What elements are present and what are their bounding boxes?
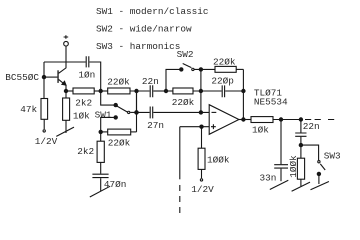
capacitor 33n plates	[274, 165, 288, 168]
wire 220k second to right vertical	[131, 131, 137, 133]
wire output vertical	[242, 69, 244, 119]
wire SW2 pole to node E	[195, 68, 216, 70]
svg-text:1Øk: 1Øk	[252, 124, 269, 135]
node I	[299, 117, 303, 121]
svg-text:BC55ØC: BC55ØC	[5, 72, 39, 83]
wire supply to collector node	[65, 46, 67, 62]
wire node C to 220k second	[101, 131, 108, 133]
wire 22n right to node J	[300, 137, 302, 158]
switch SW3 contact dot	[317, 172, 321, 176]
node B	[134, 89, 138, 93]
resistor 220k second	[108, 129, 131, 135]
wire node H to 33n	[280, 120, 282, 165]
svg-text:SW2 - wide/narrow: SW2 - wide/narrow	[96, 24, 192, 35]
wire 22n to node D	[153, 90, 166, 92]
svg-text:22Øk: 22Øk	[107, 76, 130, 87]
wire 220p to output vertical	[225, 90, 243, 92]
svg-text:2k2: 2k2	[77, 146, 94, 157]
node F	[199, 89, 203, 93]
switch SW2 pole circle	[192, 68, 194, 70]
op-amp minus sign	[212, 111, 217, 113]
switch SW1 upper wire	[101, 91, 116, 105]
svg-text:22Øk: 22Øk	[108, 138, 131, 149]
node C second 220k left	[99, 130, 103, 134]
wire emitter to 10k	[65, 91, 67, 98]
resistor 2k2 vertical	[97, 141, 104, 162]
wire plus input rail	[180, 126, 209, 128]
svg-text:SW3: SW3	[324, 150, 341, 161]
node H	[279, 117, 283, 121]
wire 1/2V dashed branch	[179, 185, 181, 213]
switch SW1 pole circle	[128, 111, 130, 113]
switch SW1 throw contact lower	[114, 115, 118, 119]
transistor Q1 emitter	[59, 79, 66, 91]
terminal 1/2V right	[200, 179, 202, 181]
node J	[299, 143, 303, 147]
wire 100k to terminal	[201, 169, 203, 178]
svg-text:22Øp: 22Øp	[211, 76, 234, 87]
svg-text:22n: 22n	[303, 121, 320, 132]
svg-text:1/2V: 1/2V	[35, 136, 58, 147]
wire base	[44, 76, 57, 78]
wire 33n to ground	[280, 169, 282, 182]
wire SW2 left branch	[166, 69, 181, 91]
wire SW1 lower branch	[101, 117, 116, 131]
wire SW3 to ground	[318, 174, 320, 184]
wire 220k feedback to output vertical	[236, 68, 243, 70]
svg-text:SW1 - modern/classic: SW1 - modern/classic	[96, 6, 209, 17]
node output	[241, 117, 245, 121]
resistor 100k bias	[198, 148, 205, 169]
capacitor 220p plates	[222, 85, 224, 97]
ground slash under 100k right	[292, 182, 310, 191]
supply terminal plus symbol	[64, 35, 69, 39]
node SW1 output	[134, 110, 138, 114]
svg-text:SW1: SW1	[95, 110, 112, 121]
wire node D to 220k under SW2	[166, 90, 173, 92]
wire 10k to node H	[273, 119, 301, 121]
wire 47k to terminal	[43, 119, 45, 129]
svg-text:22n: 22n	[142, 76, 159, 87]
switch SW2 contact dot	[179, 67, 183, 71]
switch SW2 lever	[183, 64, 192, 68]
svg-text:SW2: SW2	[177, 49, 194, 60]
wire dashed output continuation	[305, 119, 334, 121]
svg-text:33n: 33n	[260, 172, 277, 183]
wire right vertical node B down	[136, 91, 138, 132]
switch SW3 lever	[320, 164, 325, 170]
resistor 2k2 horizontal	[73, 88, 94, 94]
svg-text:2k2: 2k2	[75, 98, 92, 109]
wire 1/2V solid branch	[179, 127, 181, 180]
node minus input	[199, 110, 203, 114]
node 27n left	[134, 110, 138, 114]
wire feedback vertical	[200, 69, 202, 112]
capacitor 10n plates	[86, 56, 89, 67]
capacitor 470n plates	[92, 174, 108, 177]
wire node J to SW3	[301, 145, 319, 160]
wire 2k2 to 470n	[100, 162, 102, 173]
wire 470n to ground	[100, 178, 102, 191]
ground slash under SW3	[311, 182, 329, 190]
capacitor 22n right plates	[295, 133, 306, 136]
wire rail emitter to 2k2	[66, 90, 73, 92]
resistor 100k right	[297, 158, 304, 179]
switch SW3 pole circle	[318, 161, 320, 163]
wire left vertical to base node	[43, 62, 45, 99]
svg-text:47k: 47k	[20, 104, 37, 115]
wire node B to 27n	[137, 91, 150, 112]
ground slash under 10k	[56, 127, 74, 136]
wire node C to 2k2 vertical	[100, 132, 102, 141]
capacitor 22n coupling plates	[150, 85, 153, 97]
wire 2k2 to node A	[94, 90, 108, 92]
transistor Q1 collector	[59, 62, 66, 73]
wire 220k under SW2 to node F	[193, 90, 222, 92]
wire plus input to 100k	[201, 127, 203, 149]
transistor Q1 BC550C base bar	[57, 70, 58, 83]
svg-text:27n: 27n	[147, 120, 164, 131]
node A	[99, 89, 103, 93]
wire node I to 22n right	[300, 120, 302, 133]
node emitter junction	[64, 89, 68, 93]
op-amp U1 triangle	[209, 105, 239, 135]
resistor 47k	[41, 99, 48, 120]
resistor 220k feedback	[215, 66, 236, 72]
svg-text:1ØØk: 1ØØk	[207, 154, 230, 165]
node D	[164, 89, 168, 93]
capacitor 27n plates	[150, 107, 153, 119]
resistor 10k output	[251, 117, 273, 123]
ground slash under 470n	[90, 186, 110, 197]
node plus input	[199, 125, 203, 129]
wire 27n to op-amp minus	[153, 111, 209, 113]
wire top horizontal	[44, 61, 86, 63]
switch SW1 throw contact upper	[114, 103, 118, 107]
svg-text:1Øk: 1Øk	[73, 110, 90, 121]
op-amp plus sign	[211, 124, 216, 129]
svg-text:NE5534: NE5534	[254, 96, 288, 107]
terminal 1/2V left	[43, 130, 45, 132]
wire op-amp output	[239, 119, 251, 121]
ground slash under 33n	[270, 180, 289, 189]
node E feedback top	[199, 67, 203, 71]
resistor 10k emitter	[63, 98, 70, 120]
wire 10n to node A vertical	[89, 62, 100, 91]
node base junction	[42, 75, 46, 79]
wire 220k to node B	[130, 90, 150, 92]
resistor 220k first	[108, 88, 130, 94]
resistor 220k under SW2	[173, 88, 193, 94]
svg-text:1Øn: 1Øn	[78, 70, 95, 81]
switch SW1 lever	[117, 106, 128, 112]
wire SW1 pole to vertical	[130, 111, 136, 113]
supply terminal circle	[64, 41, 69, 46]
node G 220p right	[241, 89, 245, 93]
svg-text:SW3 - harmonics: SW3 - harmonics	[96, 41, 180, 52]
svg-text:22Øk: 22Øk	[172, 97, 195, 108]
transistor Q1 emitter arrow	[61, 80, 67, 86]
wire 100k right to ground	[300, 179, 302, 186]
wire 10k to ground	[65, 120, 67, 133]
svg-text:1/2V: 1/2V	[191, 184, 214, 195]
